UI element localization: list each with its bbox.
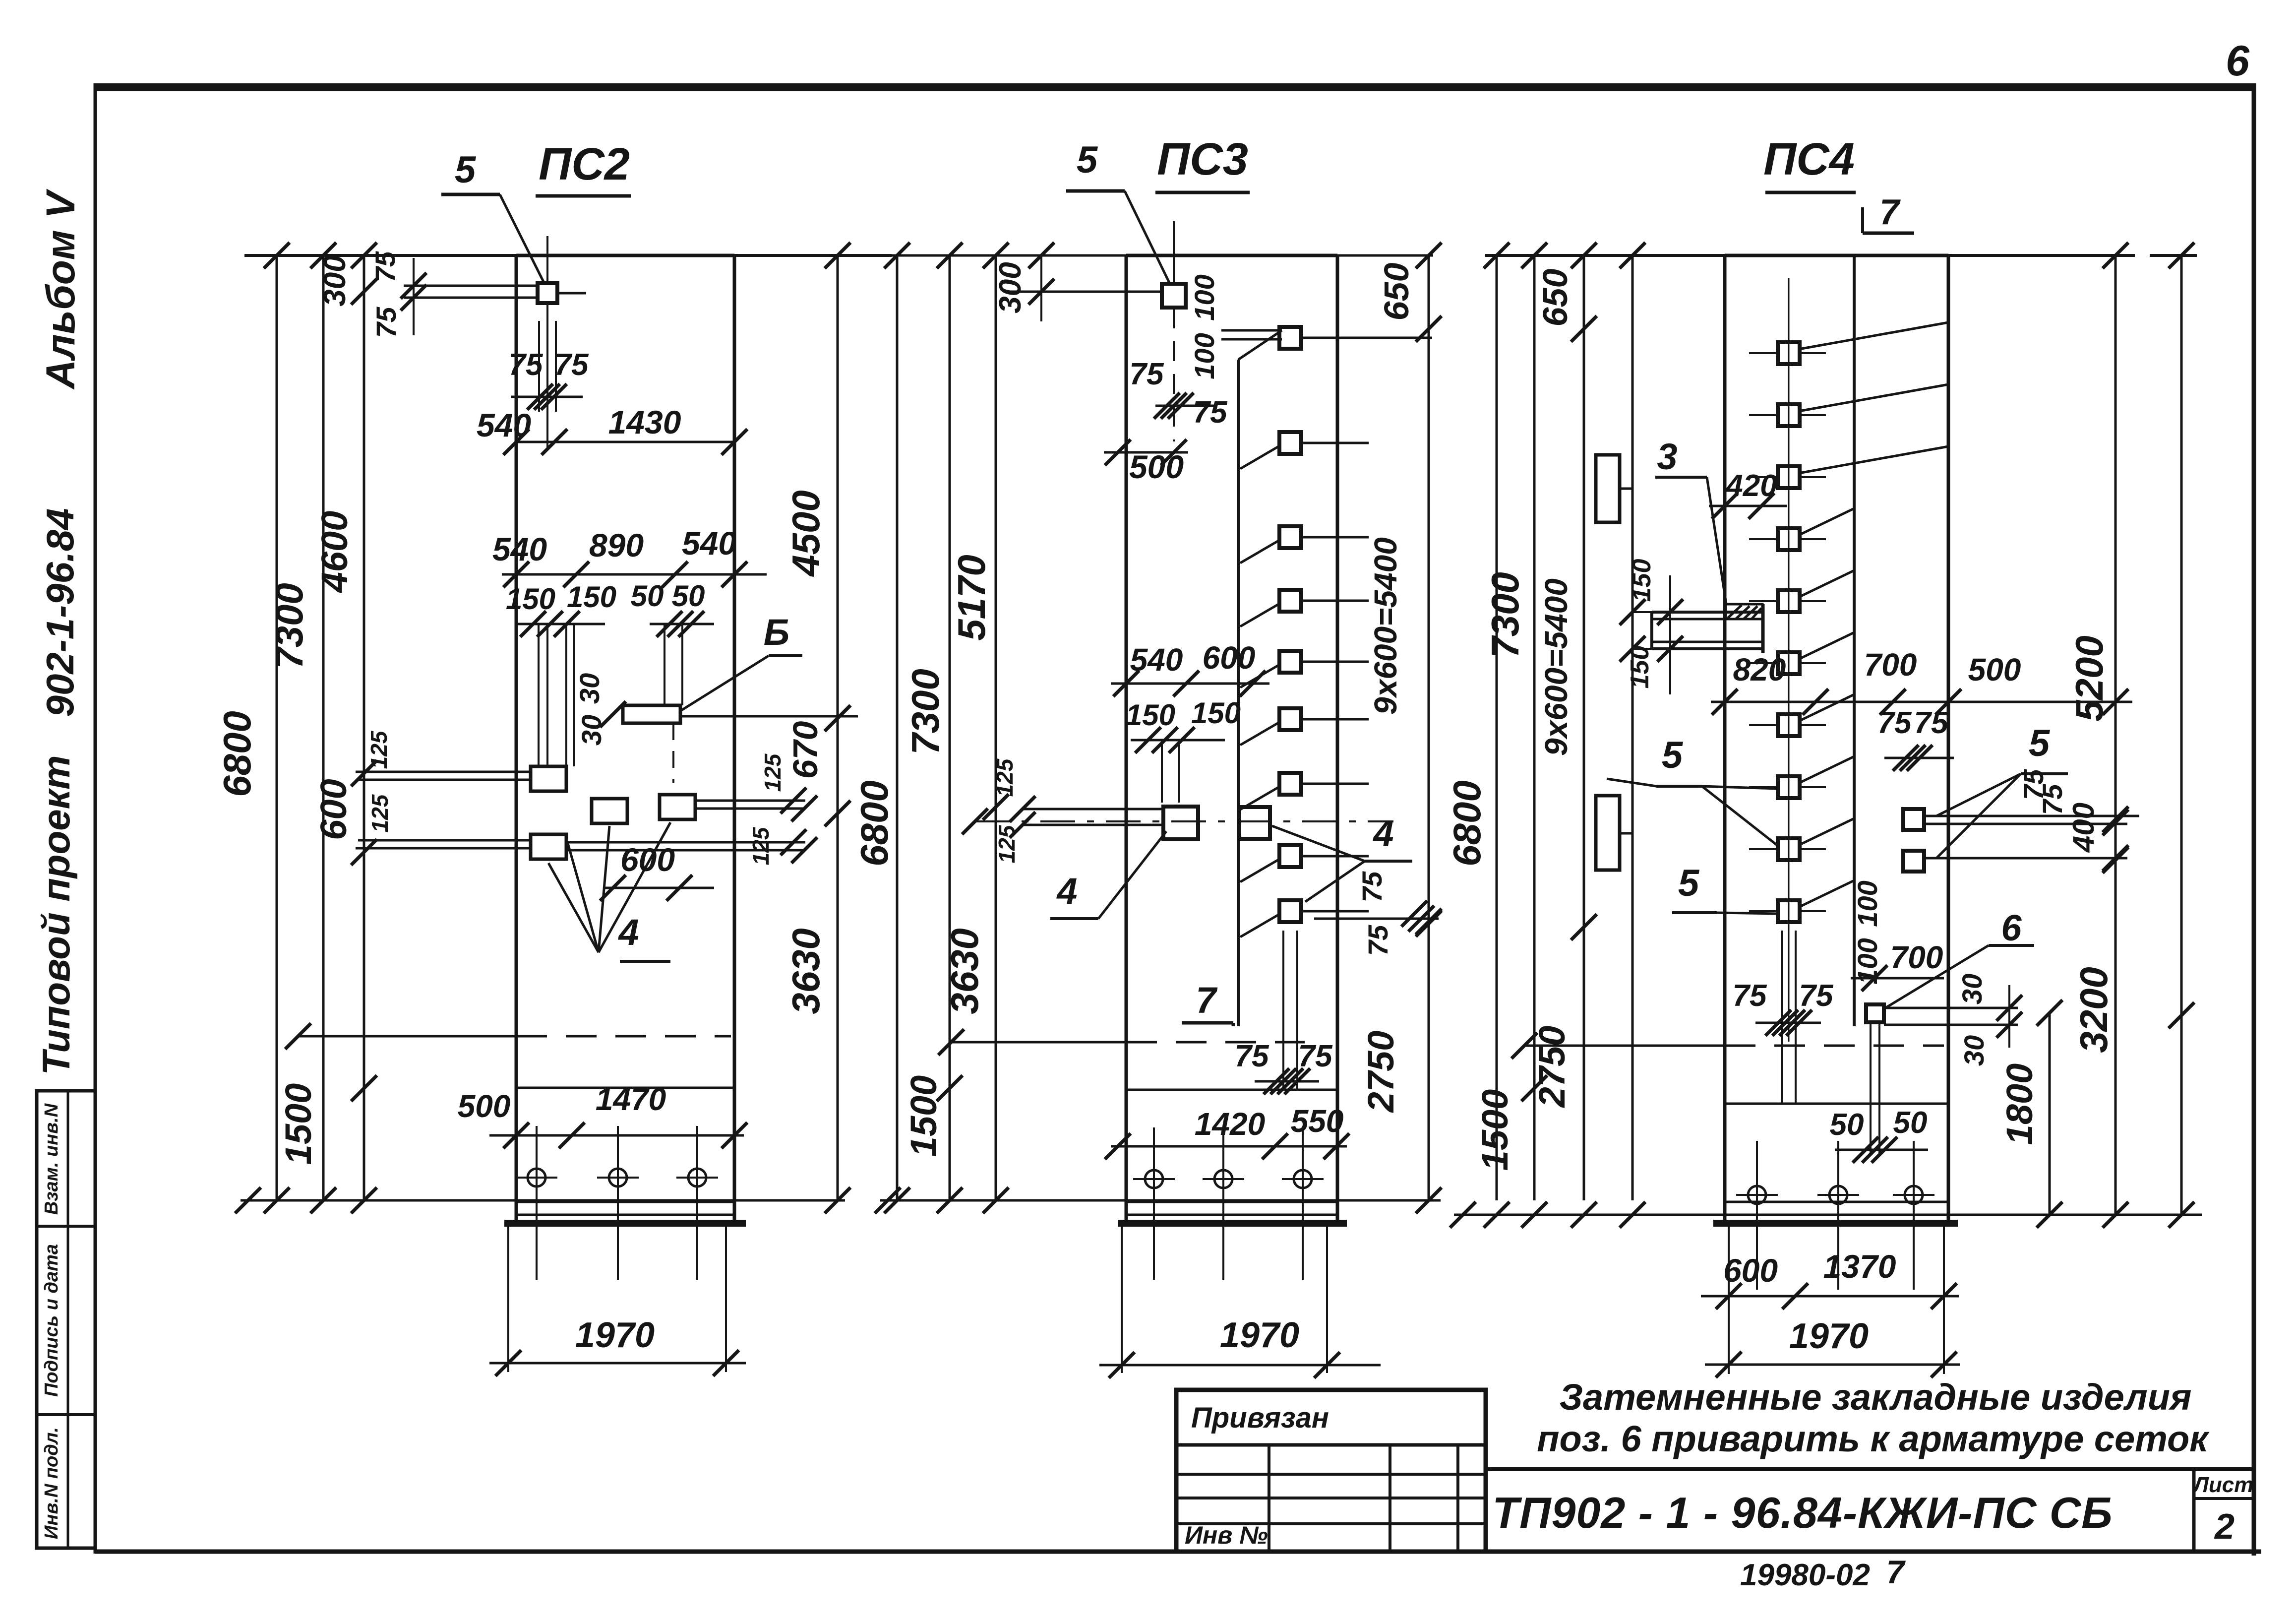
svg-text:700: 700 (1864, 647, 1917, 683)
svg-text:125: 125 (366, 730, 392, 769)
svg-text:2: 2 (2214, 1507, 2235, 1547)
svg-text:30: 30 (574, 673, 605, 704)
svg-text:150: 150 (1628, 559, 1656, 602)
svg-text:75: 75 (1799, 979, 1834, 1013)
svg-text:6: 6 (2001, 907, 2022, 948)
PS2 top dimension line (244, 243, 892, 268)
svg-text:3630: 3630 (943, 928, 986, 1014)
PS3 dim 300 rotated (993, 255, 1161, 321)
label 4 with fan leaders (548, 822, 670, 961)
svg-text:Лист: Лист (2192, 1473, 2254, 1497)
PS3 ladder embedded plate 1 (1279, 327, 1432, 349)
PS4 left chain line 7300 (1483, 255, 1534, 1200)
svg-text:4: 4 (1372, 813, 1393, 854)
PS3 label 4 left with leader (1050, 831, 1166, 919)
svg-text:7300: 7300 (904, 669, 947, 755)
PS3 extension lines to plates 4 (1162, 740, 1179, 803)
left attribute column box (37, 1091, 95, 1548)
PS2 bottom width extension lines (508, 1223, 726, 1372)
margin caption 902-1-96.84 (38, 508, 82, 717)
PS4 ladder embedded plate 9 (1749, 818, 1854, 860)
PS4 right chain outer line (2169, 255, 2194, 1228)
PS2 dim 540 1430 (477, 404, 747, 455)
PS3 right chain line 650-5400-2750 (1360, 255, 1442, 1213)
svg-text:75: 75 (554, 348, 589, 382)
svg-text:Подпись и дата: Подпись и дата (41, 1244, 62, 1397)
svg-text:19980-02: 19980-02 (1740, 1558, 1870, 1592)
PS3 label 4 right with leader (1272, 813, 1412, 902)
PS2 centre dashed line (285, 1023, 731, 1049)
PS2 footing top line (516, 1087, 734, 1089)
PS2 anchor hole right (676, 1126, 718, 1280)
PS3 first anchor pair lines (1221, 330, 1282, 339)
PS4 side lug lower (1596, 796, 1632, 870)
svg-text:500: 500 (1968, 652, 2021, 687)
PS4 dim 100 100 rotated (1852, 880, 1883, 984)
PS4 anchor hole right (1893, 1141, 1934, 1290)
PS4 dim 1970 (1705, 1316, 1960, 1377)
PS3 ladder embedded plate 8 (1240, 845, 1369, 882)
PS2 dim 540 890 540 (492, 525, 767, 587)
svg-text:75: 75 (1914, 706, 1949, 740)
PS3 footing top line (1126, 1089, 1337, 1091)
plate 4 left lower embedded square (356, 829, 817, 863)
svg-text:75: 75 (1130, 357, 1164, 391)
svg-text:75: 75 (1193, 395, 1228, 430)
PS3 ladder embedded plate 2 (1240, 432, 1369, 469)
frame right border (2252, 83, 2256, 1556)
PS3 anchor hole middle (1203, 1127, 1244, 1280)
svg-text:1500: 1500 (903, 1075, 944, 1157)
label 3 with leader (1655, 436, 1726, 604)
PS4 dim 150 150 rotated (1620, 559, 1683, 694)
PS4 ladder embedded plate 2 (1749, 384, 1948, 426)
PS3 plate 5 embedded square (1162, 221, 1186, 441)
PS3 dim 500 (1104, 439, 1188, 485)
PS4 ladder embedded plate 5 (1749, 570, 1854, 612)
PS4 label 5 left upper with leaders (1607, 734, 1778, 846)
svg-text:1430: 1430 (608, 404, 681, 440)
svg-text:890: 890 (589, 527, 644, 563)
PS4 top dimension line (1484, 243, 2197, 268)
svg-text:1470: 1470 (596, 1081, 666, 1117)
PS3 footing dim 1420 550 (1105, 1103, 1349, 1159)
svg-text:1800: 1800 (1999, 1063, 2040, 1145)
PS4 bottom width extension lines (1729, 1223, 1944, 1374)
PS4 panel outline (1725, 255, 1948, 1223)
PS3 centre dashed line (938, 1029, 1305, 1055)
PS3 bottom width extension lines (1122, 1223, 1327, 1373)
PS2 left chain line 7300 (267, 255, 323, 1200)
PS4 anchor hole middle (1817, 1141, 1859, 1290)
PS2 dim 75 75 under plate (509, 321, 589, 412)
PS3 ladder embedded plate 6 (1240, 708, 1369, 745)
svg-text:Привязан: Привязан (1191, 1402, 1329, 1434)
svg-text:2750: 2750 (1360, 1031, 1401, 1114)
note line 1 (1560, 1376, 2192, 1418)
svg-text:7300: 7300 (267, 583, 311, 669)
PS3 inner step line with top bend (1238, 330, 1282, 1026)
svg-text:1500: 1500 (1474, 1089, 1515, 1171)
svg-text:75: 75 (369, 251, 401, 282)
svg-text:5: 5 (1077, 139, 1098, 181)
plate 4 left upper embedded square (356, 766, 566, 791)
svg-text:125: 125 (367, 794, 393, 832)
PS3 plate 4 right embedded square (1239, 807, 1270, 839)
PS4 ladder embedded plate 8 (1749, 756, 1854, 798)
title sheet number 2 (2214, 1507, 2235, 1547)
svg-text:9x600=5400: 9x600=5400 (1368, 537, 1403, 715)
PS2 dim 30 30 rotated at plate B (574, 673, 626, 746)
PS2 dim 1970 (489, 1315, 746, 1376)
PS3 dim 75 75 right rotated (1314, 871, 1442, 956)
svg-text:3: 3 (1657, 436, 1677, 477)
PS3 top dimension line (884, 243, 1442, 268)
note line 2 (1537, 1418, 2210, 1459)
svg-text:1500: 1500 (278, 1083, 319, 1165)
PS4 bottom band (1713, 1202, 1958, 1223)
title PS3 (1155, 134, 1250, 192)
svg-text:500: 500 (1129, 448, 1184, 485)
PS4 ladder embedded plate 7 (1749, 694, 1854, 736)
attribute caption Inv N podl (41, 1427, 62, 1539)
title PS2 (536, 139, 631, 196)
svg-text:550: 550 (1291, 1103, 1344, 1139)
PS3 panel outline (1126, 255, 1337, 1223)
PS4 left chain line extensions (1474, 255, 1632, 1200)
stamp box outline (1176, 1390, 1486, 1552)
svg-text:3200: 3200 (2072, 967, 2115, 1053)
PS3 left chain line 7300 (903, 255, 963, 1200)
label 5 with leader to plate (441, 149, 544, 284)
PS3 dim 540 600 (1111, 640, 1269, 696)
svg-text:75: 75 (1733, 979, 1767, 1013)
svg-text:150: 150 (506, 582, 555, 616)
PS3 left chain line 6800 (852, 255, 897, 1200)
PS3 anchor hole left (1133, 1127, 1175, 1280)
PS3 dim 100 100 rotated (1189, 274, 1220, 379)
PS2 left small chain 125 125 (366, 730, 393, 832)
svg-text:500: 500 (458, 1088, 511, 1124)
svg-text:100: 100 (1189, 333, 1220, 379)
svg-text:Инв №: Инв № (1185, 1521, 1268, 1549)
svg-text:75: 75 (1298, 1039, 1333, 1073)
document number 19980-02 7 (1740, 1554, 1906, 1592)
PS3 dim 75 75 at plate 5 (1130, 357, 1228, 430)
stamp caption Privyazan (1191, 1402, 1329, 1434)
svg-text:820: 820 (1733, 652, 1786, 687)
svg-text:75: 75 (370, 307, 402, 338)
svg-text:50: 50 (1830, 1108, 1864, 1142)
PS4 dim 50 50 (1830, 1106, 1928, 1163)
svg-text:6: 6 (2226, 37, 2250, 85)
PS3 ladder embedded plate 3 (1240, 526, 1369, 563)
svg-text:100: 100 (1852, 880, 1883, 927)
svg-text:75: 75 (1356, 871, 1388, 902)
svg-text:1970: 1970 (575, 1315, 655, 1355)
PS4 left chain line 6800 (1445, 255, 1497, 1200)
svg-text:600: 600 (620, 841, 675, 878)
PS4 dim 75 75 bottom left (1733, 979, 1834, 1036)
svg-text:6800: 6800 (1445, 780, 1489, 867)
svg-text:50: 50 (631, 579, 664, 613)
PS2 ground dimension line (235, 1187, 845, 1213)
PS3 dim 125 125 rotated left (992, 758, 1035, 863)
PS2 extension lines from 150 chain (539, 624, 682, 766)
svg-text:7: 7 (1886, 1554, 1906, 1590)
svg-text:Типовой проект: Типовой проект (34, 755, 78, 1075)
svg-text:30: 30 (1958, 1035, 1990, 1066)
attribute caption Vzam inv N (41, 1103, 62, 1215)
PS3 dim 1970 (1099, 1315, 1381, 1378)
PS4 anchor hole left (1736, 1141, 1778, 1290)
PS2 anchor hole left (516, 1126, 557, 1280)
PS2 dim 300 rotated (318, 255, 377, 306)
svg-text:125: 125 (748, 826, 774, 865)
svg-text:400: 400 (2067, 803, 2100, 853)
PS4 ladder embedded plate 10 (1749, 880, 1854, 922)
sheet page number 6 (2226, 37, 2250, 85)
svg-text:5: 5 (1662, 734, 1684, 776)
PS4 footing top line (1725, 1103, 1948, 1105)
PS3 ladder embedded plate 5 (1240, 651, 1369, 687)
svg-text:4: 4 (617, 912, 639, 953)
svg-text:700: 700 (1890, 939, 1943, 975)
PS2 footing dim 500 1470 (458, 1081, 747, 1148)
PS4 ground dimension line (1450, 1202, 2202, 1228)
svg-text:150: 150 (567, 580, 616, 614)
svg-text:902-1-96.84: 902-1-96.84 (38, 508, 82, 717)
label 6 with leader (1885, 907, 2034, 1008)
PS2 dim 600 between plates (600, 841, 714, 901)
PS4 ladder axis line (1788, 278, 1790, 1042)
svg-text:ПС3: ПС3 (1157, 134, 1248, 185)
svg-text:5: 5 (455, 149, 477, 191)
title text TP902 (1492, 1488, 2113, 1537)
PS4 dim 30 30 rotated (1956, 974, 1990, 1066)
PS4 ladder embedded plate 6 (1749, 632, 1854, 674)
svg-text:30: 30 (576, 715, 607, 746)
svg-text:5: 5 (2029, 722, 2051, 764)
plate B embedded strip (623, 705, 858, 783)
svg-text:75: 75 (2037, 784, 2068, 815)
frame top border (95, 83, 2254, 91)
PS2 bottom band (504, 1202, 746, 1223)
svg-text:ТП902 - 1 - 96.84-КЖИ-ПС СБ: ТП902 - 1 - 96.84-КЖИ-ПС СБ (1492, 1488, 2113, 1537)
PS4 centre line (1511, 1033, 1944, 1059)
svg-text:6800: 6800 (852, 780, 896, 867)
PS3 ground dimension line (875, 1187, 1441, 1213)
svg-text:100: 100 (1189, 274, 1220, 320)
svg-text:ПС2: ПС2 (539, 139, 630, 189)
label B with leader (681, 612, 802, 710)
PS4 dim line 1800 (1999, 1000, 2062, 1228)
svg-text:ПС4: ПС4 (1763, 134, 1855, 185)
PS3 section mark 7 (1182, 980, 1233, 1026)
PS4 ladder embedded plate 1 (1749, 322, 1948, 364)
stamp box rows and columns (1176, 1445, 1486, 1552)
PS3 bottom band (1118, 1202, 1347, 1223)
PS3 plate 4 left embedded square (1023, 807, 1198, 839)
PS4 dim 700 at anchor (1851, 939, 1944, 991)
frame left border (94, 83, 97, 1554)
PS3 left chain line 5170-3630 (943, 255, 1009, 1200)
svg-text:7: 7 (1196, 980, 1218, 1021)
svg-text:540: 540 (492, 531, 547, 567)
svg-text:50: 50 (1893, 1106, 1928, 1140)
margin caption Tipovoy proekt (34, 755, 78, 1075)
svg-text:7: 7 (1879, 192, 1901, 232)
svg-text:1970: 1970 (1220, 1315, 1299, 1355)
svg-text:540: 540 (477, 407, 531, 443)
svg-text:1420: 1420 (1195, 1106, 1265, 1142)
svg-text:150: 150 (1126, 698, 1175, 732)
PS4 dim 600 1370 (1701, 1248, 1959, 1309)
margin caption Album V (38, 188, 83, 390)
PS3 ladder embedded plate 4 (1240, 590, 1369, 626)
svg-text:650: 650 (1377, 263, 1416, 321)
PS4 dim 75 75 mid (1877, 706, 1954, 771)
svg-text:1370: 1370 (1823, 1248, 1896, 1285)
svg-text:Альбом V: Альбом V (38, 188, 83, 390)
svg-text:7300: 7300 (1483, 572, 1527, 658)
plate 5 embedded square (404, 236, 586, 449)
svg-text:650: 650 (1536, 269, 1574, 327)
svg-text:4500: 4500 (784, 490, 828, 577)
PS3 ladder embedded plate 9 (1240, 900, 1369, 937)
PS4 ladder embedded plate 4 (1749, 508, 1854, 550)
svg-text:125: 125 (760, 753, 785, 792)
PS4 right chain line 5200-400-3200 (2067, 255, 2128, 1228)
PS3 ladder embedded plate 7 (1240, 773, 1369, 810)
PS4 left chain line 650-5400-2750 (1531, 255, 1597, 1200)
PS2 left chain line 6800 (215, 255, 277, 1200)
svg-text:75: 75 (1235, 1039, 1269, 1073)
PS2 dim 75 75 rotated at plate (369, 251, 426, 338)
plate 4 right embedded square (660, 788, 817, 821)
PS4 section mark 7 top (1863, 192, 1914, 233)
svg-text:Затемненные закладные издели: Затемненные закладные изделия (1560, 1376, 2192, 1418)
PS4 long anchor with top square (1866, 985, 2022, 1153)
svg-text:6800: 6800 (215, 711, 259, 797)
PS3 anchor hole right (1282, 1127, 1324, 1280)
svg-text:5: 5 (1678, 862, 1700, 904)
frame bottom border (95, 1550, 2261, 1554)
svg-text:5170: 5170 (950, 555, 993, 641)
title caption List (2192, 1473, 2254, 1497)
title PS4 (1763, 134, 1856, 192)
svg-text:Взам. инв.N: Взам. инв.N (41, 1103, 62, 1215)
svg-text:Инв.N подл.: Инв.N подл. (41, 1427, 62, 1539)
svg-text:2750: 2750 (1531, 1026, 1572, 1109)
PS4 label 5 left lower with leader (1672, 862, 1778, 914)
svg-text:1970: 1970 (1789, 1316, 1869, 1356)
PS4 side lug upper (1596, 455, 1632, 522)
attribute caption Podpis i data (41, 1244, 62, 1397)
svg-text:9x600=5400: 9x600=5400 (1538, 578, 1574, 756)
PS3 anchor extension below ladder (1283, 931, 1297, 1090)
PS4 right pair plate upper (1903, 809, 2139, 830)
PS4 right pair plate lower (1903, 851, 2127, 872)
svg-text:4600: 4600 (314, 511, 355, 594)
PS4 ladder embedded plate 3 (1749, 446, 1948, 488)
PS2 left chain line 4600-600-1500 (278, 255, 377, 1200)
PS3 label 5 with leader (1066, 139, 1170, 285)
plate 4 middle embedded square (592, 799, 627, 823)
PS2 right chain line 4500-670-3630 (748, 255, 850, 1213)
svg-text:300: 300 (318, 255, 352, 306)
svg-text:75: 75 (1877, 706, 1912, 740)
stamp caption Inv No (1185, 1521, 1268, 1549)
title bar (1486, 1469, 2254, 1552)
PS4 plate 3 channel with blackened end (1652, 604, 1764, 653)
PS3 plates 4 row centreline (962, 809, 1393, 834)
svg-text:600: 600 (1723, 1252, 1778, 1289)
PS4 ladder anchor extension below (1782, 931, 1796, 1104)
PS3 dim 75 75 bottom (1235, 1039, 1333, 1094)
PS4 inner step line (1853, 255, 1856, 1026)
PS4 label 5 right with leaders (1936, 722, 2068, 858)
PS4 dim 75 75 400 rotated right (2018, 769, 2128, 871)
svg-text:4: 4 (1056, 871, 1077, 912)
svg-text:670: 670 (786, 721, 825, 779)
svg-text:600: 600 (1203, 640, 1256, 676)
PS2 panel outline (516, 255, 734, 1223)
svg-text:3630: 3630 (784, 928, 828, 1014)
svg-text:540: 540 (682, 525, 736, 562)
PS3 dim 150 150 (1126, 696, 1241, 753)
PS2 anchor hole middle (597, 1126, 639, 1280)
PS4 dim 420 (1709, 469, 1787, 519)
svg-text:50: 50 (672, 579, 705, 613)
PS4 dim 820 700 500 (1711, 647, 2132, 715)
svg-text:150: 150 (1191, 696, 1241, 730)
svg-text:Б: Б (764, 612, 789, 653)
PS2 dim 150 150 50 50 (506, 579, 714, 637)
svg-text:600: 600 (313, 779, 354, 840)
svg-text:125: 125 (992, 758, 1018, 797)
svg-text:30: 30 (1956, 974, 1988, 1004)
svg-text:75: 75 (1362, 925, 1393, 956)
svg-text:300: 300 (993, 262, 1027, 313)
svg-text:поз. 6 приварить к арматуре: поз. 6 приварить к арматуре сеток (1537, 1418, 2210, 1459)
svg-text:5200: 5200 (2067, 635, 2111, 722)
